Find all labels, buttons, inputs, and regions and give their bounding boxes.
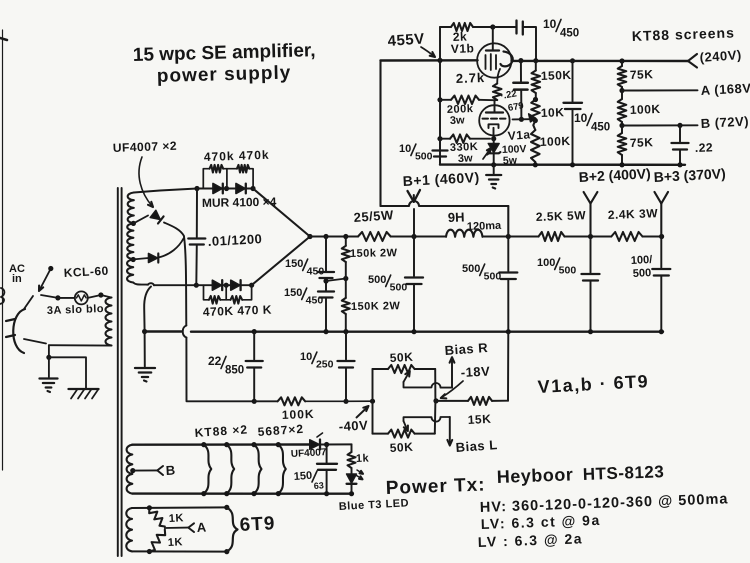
heater pair 3 bottom node bbox=[251, 491, 256, 496]
AC plug prong 2 bbox=[6, 335, 15, 337]
wire neutral corner bbox=[48, 345, 50, 357]
caps chain mid bbox=[323, 278, 328, 291]
node first bleeders bbox=[343, 234, 348, 239]
label 50K top bbox=[389, 350, 413, 365]
label 10/450 top bbox=[543, 17, 579, 39]
svg-text:HV: 360-120-0-120-360 @ 500ma: HV: 360-120-0-120-360 @ 500ma bbox=[480, 491, 729, 516]
wire cap 455V bbox=[507, 237, 509, 272]
svg-text:500: 500 bbox=[484, 271, 502, 283]
capacitor .01/1200 snubber bbox=[188, 239, 205, 245]
svg-text:B+3 (370V): B+3 (370V) bbox=[653, 165, 726, 185]
label 100V 5w bbox=[502, 143, 527, 167]
earth ground bbox=[40, 379, 58, 393]
heater pair 4 bottom node bbox=[276, 491, 281, 496]
diode D5 UF4007 upper bbox=[133, 210, 184, 236]
svg-text:1K: 1K bbox=[168, 536, 184, 549]
svg-text:Blue T3 LED: Blue T3 LED bbox=[339, 497, 410, 513]
label 2.7k bbox=[456, 70, 486, 86]
wire B+1 node drop bbox=[413, 209, 415, 237]
label 25/5W bbox=[353, 207, 394, 225]
label 75K lower bbox=[630, 135, 654, 150]
top row right node bbox=[250, 186, 255, 191]
wire V1b left column bbox=[439, 27, 441, 165]
pot R wiper loop bbox=[404, 382, 453, 388]
resistor 75K lower bbox=[618, 126, 627, 165]
wire diagonal bottom to output bbox=[252, 237, 310, 286]
lower rail node 100k bbox=[533, 162, 538, 167]
node 455V takeoff bbox=[506, 234, 511, 239]
bridge top row left node bbox=[194, 186, 199, 191]
label 3A slo blo bbox=[47, 303, 105, 317]
heater winding 6T9 bbox=[126, 508, 132, 551]
bottom row right node bbox=[249, 283, 254, 288]
earth ground secondary bbox=[135, 368, 155, 382]
gnd rail node 500/500a bbox=[411, 329, 416, 334]
svg-text:LV: 6.3 ct @ 9a: LV: 6.3 ct @ 9a bbox=[481, 512, 601, 532]
label .22 screens bbox=[695, 140, 714, 155]
wire 10/450b bottom bbox=[572, 109, 574, 165]
neutral junction bbox=[46, 355, 51, 360]
svg-text:470k 470k: 470k 470k bbox=[204, 148, 270, 164]
label 10/500 bbox=[399, 143, 433, 163]
bottom row mid node bbox=[222, 283, 231, 288]
label -18V bbox=[460, 363, 490, 380]
V1b cathode bbox=[501, 52, 513, 67]
node divider top bbox=[619, 58, 624, 63]
label Blue T3 LED bbox=[339, 497, 410, 513]
chassis ground bbox=[69, 389, 99, 399]
wire 22/850 top bbox=[253, 332, 255, 360]
wire 10/250 bottom bbox=[345, 368, 347, 402]
capacitor 150/450 upper bbox=[318, 272, 334, 278]
capacitor 100/500 first bbox=[582, 274, 600, 281]
arrow -18V bbox=[441, 381, 463, 398]
svg-text:UF4007 ×2: UF4007 ×2 bbox=[113, 139, 178, 155]
svg-text:120ma: 120ma bbox=[467, 220, 503, 233]
svg-text:500: 500 bbox=[390, 282, 408, 294]
svg-text:B+1 (460V): B+1 (460V) bbox=[402, 169, 480, 189]
title line 2 bbox=[157, 62, 292, 87]
wire fb to wiper bbox=[513, 118, 530, 120]
label arrow UF4007 bbox=[139, 157, 153, 207]
label MUR4100 x4 bbox=[202, 195, 277, 210]
svg-text:6T9: 6T9 bbox=[239, 513, 276, 536]
B+ rail segment 2 bbox=[391, 235, 446, 237]
svg-text:B: B bbox=[165, 463, 175, 478]
svg-text:100K: 100K bbox=[282, 407, 315, 422]
node -40V bbox=[370, 399, 375, 404]
label 150k 2W upper bbox=[350, 247, 398, 260]
gnd rail node 100/500b bbox=[659, 329, 664, 334]
wire bias return lower bbox=[186, 338, 254, 402]
svg-text:25/5W: 25/5W bbox=[353, 207, 394, 225]
wire plug hot to switch bbox=[24, 296, 33, 309]
arrow B tap bbox=[157, 466, 163, 475]
label 75K upper bbox=[630, 67, 654, 82]
svg-text:50K: 50K bbox=[389, 350, 413, 365]
node zener bbox=[491, 136, 496, 141]
pot 10k wiper arrow bbox=[529, 114, 536, 122]
resistor 150k 2W lower bbox=[342, 298, 350, 332]
title line 1 bbox=[133, 40, 316, 66]
label 50K bottom bbox=[389, 440, 413, 455]
B+ rail segment 4 bbox=[565, 235, 612, 237]
ground V1a bbox=[486, 175, 501, 189]
heater winding 6.3V bbox=[127, 445, 133, 494]
heater pair 2 bbox=[227, 445, 235, 494]
wire heater cap bottom bbox=[326, 470, 328, 494]
node B takeoff bbox=[619, 123, 624, 128]
svg-text:1K: 1K bbox=[169, 512, 185, 525]
HV tap node lower bbox=[131, 257, 136, 262]
heater pair 1 bottom node bbox=[201, 491, 206, 496]
svg-text:10: 10 bbox=[399, 143, 411, 155]
pot L wiper loop bbox=[404, 417, 450, 422]
label 150k 2W lower bbox=[351, 300, 401, 313]
6T9 bottom node bbox=[147, 549, 152, 554]
diode D6 UF4007 lower bbox=[132, 239, 183, 263]
svg-text:2.7k: 2.7k bbox=[456, 70, 486, 86]
svg-text:.01/1200: .01/1200 bbox=[207, 231, 262, 249]
label Bias R bbox=[444, 340, 489, 358]
6T9 top rail bbox=[132, 506, 227, 509]
label 150/450 upper bbox=[285, 258, 324, 278]
hop over ground rail bbox=[183, 326, 187, 338]
wire top row bbox=[197, 188, 213, 190]
pot R wiper arrow bbox=[404, 371, 410, 382]
pot box left rail bbox=[372, 369, 374, 434]
heater pair 3 bbox=[254, 445, 262, 494]
stray mark top-left bbox=[0, 38, 7, 40]
svg-text:63: 63 bbox=[313, 480, 324, 491]
wire to chassis ground bbox=[49, 357, 86, 388]
label 100k bbox=[540, 134, 571, 149]
resistor 2.7k bbox=[493, 84, 502, 101]
node B+3 takeoff bbox=[659, 234, 664, 239]
node LED bottom bbox=[349, 491, 354, 496]
svg-text:250: 250 bbox=[316, 359, 334, 371]
svg-text:(240V): (240V) bbox=[699, 47, 742, 65]
svg-text:500: 500 bbox=[462, 263, 480, 275]
V1a plate lead bbox=[494, 100, 496, 112]
rheostat 10k bbox=[531, 100, 540, 120]
wire top row right bbox=[246, 188, 253, 190]
resistor 15K bbox=[436, 397, 508, 405]
label V1a,b 6T9 bbox=[537, 371, 649, 397]
svg-text:2.4K 3W: 2.4K 3W bbox=[608, 206, 659, 222]
svg-text:-18V: -18V bbox=[460, 363, 490, 380]
lower rail node zener bbox=[491, 162, 496, 167]
wire primary bottom to neutral bbox=[49, 344, 112, 346]
wire cap B+2 bottom bbox=[590, 281, 592, 332]
heater pair 4 bbox=[278, 445, 286, 494]
svg-text:10: 10 bbox=[543, 17, 557, 31]
label 2k bbox=[453, 30, 468, 44]
svg-text:15K: 15K bbox=[467, 412, 491, 427]
label (240V) bbox=[699, 47, 742, 65]
top row mid node bbox=[223, 186, 236, 191]
svg-text:75K: 75K bbox=[630, 67, 654, 82]
wire return to earth bbox=[144, 332, 146, 367]
svg-text:MUR 4100 ×4: MUR 4100 ×4 bbox=[202, 195, 277, 210]
diode D1 MUR4100 bbox=[213, 184, 223, 194]
HV secondary top lead bbox=[134, 189, 197, 193]
arrow B+2 bbox=[584, 192, 598, 204]
capacitor 10/250 bbox=[338, 361, 355, 368]
label B (72V) bbox=[700, 113, 749, 131]
wire 455V feed bbox=[381, 61, 509, 237]
svg-text:power supply: power supply bbox=[157, 62, 292, 87]
potentiometer 50K (L bias) bbox=[373, 430, 435, 438]
bottom row left node bbox=[194, 283, 199, 288]
wire cathode node bbox=[496, 99, 498, 101]
label HV spec bbox=[480, 491, 729, 516]
resistor 470k (D2 shunt) bbox=[227, 165, 253, 189]
resistor 2.4k 3W bbox=[611, 232, 642, 241]
zener VR1 100V bbox=[487, 139, 500, 165]
tube V1b envelope bbox=[477, 43, 511, 77]
zener pointer arrow bbox=[483, 148, 491, 159]
label 5687 x2 bbox=[257, 422, 304, 439]
resistor 1k LED bbox=[348, 444, 356, 468]
gnd rail node 22uF bbox=[252, 329, 257, 334]
gnd rail node caps bbox=[323, 329, 328, 334]
label 1K lower bbox=[168, 536, 184, 549]
lower rail node divider bbox=[619, 162, 624, 167]
resistor 75K upper bbox=[618, 61, 627, 91]
wire to earth ground bbox=[48, 357, 50, 377]
svg-text:150K 2W: 150K 2W bbox=[351, 300, 401, 313]
node 455V B+ feed bbox=[437, 58, 442, 63]
wire bottom row bbox=[196, 284, 212, 286]
label 9H bbox=[448, 209, 503, 233]
wire 10/500 top bbox=[439, 139, 441, 149]
resistor 1K humdinger lower bbox=[149, 530, 165, 552]
switch contact node bbox=[48, 266, 53, 271]
svg-text:in: in bbox=[12, 273, 22, 285]
label KCL-60 bbox=[63, 264, 109, 280]
svg-text:A: A bbox=[196, 519, 207, 535]
resistor 1K humdinger upper bbox=[149, 508, 165, 527]
label A (168V) bbox=[700, 80, 750, 98]
capacitor 150/450 lower bbox=[318, 292, 334, 298]
svg-text:KT88 screens: KT88 screens bbox=[632, 24, 736, 44]
wire plug neutral bbox=[24, 339, 46, 344]
heater pair 2 top node bbox=[224, 442, 229, 447]
HV secondary winding middle bbox=[127, 223, 133, 259]
bias node 22uF bbox=[252, 399, 257, 404]
HV bottom lead bbox=[133, 283, 196, 286]
svg-text:150k 2W: 150k 2W bbox=[350, 247, 398, 260]
svg-text:Bias L: Bias L bbox=[455, 437, 498, 455]
wire cap B+3 bottom bbox=[660, 276, 662, 332]
scan edge shadow bbox=[2, 30, 4, 470]
pot L right lead bbox=[434, 401, 437, 434]
wire cap B+2 bbox=[590, 237, 592, 273]
label 1K upper bbox=[169, 512, 185, 525]
label V1b bbox=[451, 41, 475, 56]
label Bias L bbox=[455, 437, 498, 455]
resistor 100K divider bbox=[618, 91, 627, 126]
wire Bias L bbox=[447, 417, 452, 446]
label 500/500 second bbox=[462, 263, 501, 283]
heater pair 1 bbox=[204, 445, 212, 494]
lower rail node .22 bbox=[677, 162, 682, 167]
wire switch to fuse bbox=[41, 295, 58, 298]
heater pair 4 top node bbox=[276, 442, 281, 447]
fuse F1 3A slo-blo bbox=[75, 291, 88, 304]
label A tap bbox=[196, 519, 207, 535]
label Power Tx: bbox=[385, 475, 485, 499]
choke 9H 120ma bbox=[446, 230, 483, 237]
svg-text:LV : 6.3 @ 2a: LV : 6.3 @ 2a bbox=[478, 530, 584, 550]
V1a plate bbox=[486, 111, 503, 113]
heater bottom rail bbox=[132, 492, 352, 495]
svg-text:500: 500 bbox=[415, 151, 433, 163]
winding tap B bbox=[130, 468, 157, 473]
label V1a bbox=[507, 127, 531, 143]
wire bias return vertical bbox=[184, 237, 186, 326]
svg-text:100/: 100/ bbox=[631, 254, 653, 267]
svg-text:9H: 9H bbox=[448, 209, 465, 225]
capacitor 22/850 bbox=[246, 361, 263, 368]
svg-text:850: 850 bbox=[225, 364, 244, 376]
node .22 tap bbox=[677, 123, 682, 128]
HV secondary winding upper bbox=[128, 193, 134, 224]
label 100/500 second bbox=[631, 254, 653, 280]
svg-text:HTS-8123: HTS-8123 bbox=[582, 462, 664, 484]
svg-text:·.22: ·.22 bbox=[500, 88, 518, 102]
arrow 455V bbox=[421, 47, 435, 57]
heater top rail bbox=[132, 443, 309, 446]
arrow B+1 bbox=[408, 190, 421, 202]
V1b grid dashes bbox=[486, 54, 497, 70]
label 200k bbox=[447, 103, 474, 127]
label KT88 x2 bbox=[194, 422, 248, 440]
resistor 150k 2W upper bbox=[342, 237, 350, 298]
svg-text:1k: 1k bbox=[356, 453, 370, 465]
label 10/450 mid bbox=[574, 111, 610, 133]
svg-text:2.5K 5W: 2.5K 5W bbox=[536, 208, 587, 224]
label KT88 screens bbox=[632, 24, 736, 44]
node B+2 takeoff bbox=[588, 234, 593, 239]
resistor 2k bbox=[440, 23, 493, 31]
node 10k bottom bbox=[533, 118, 538, 123]
return junction bbox=[142, 329, 147, 334]
wire heater dc bbox=[320, 443, 352, 445]
switch lever bbox=[39, 269, 51, 292]
wire fuse to primary bbox=[88, 295, 112, 298]
wire B+2 drop bbox=[589, 204, 591, 237]
svg-text:470K 470 K: 470K 470 K bbox=[203, 303, 272, 319]
6T9 rail end bottom node bbox=[224, 549, 229, 554]
V1b plate bbox=[486, 49, 499, 51]
LED D8 blue bbox=[347, 468, 357, 494]
label B+1 (460V) bbox=[402, 169, 480, 189]
capacitor 10/450 mid bbox=[564, 103, 583, 109]
V1a stage lower rail bbox=[440, 163, 685, 166]
gnd rail node 100/500a bbox=[588, 329, 593, 334]
label Heyboor HTS-8123 bbox=[496, 462, 664, 487]
6T9 bottom rail bbox=[132, 550, 227, 552]
wire 22/850 bottom bbox=[253, 368, 255, 402]
label 100K divider bbox=[630, 102, 661, 117]
svg-text:100K: 100K bbox=[540, 134, 571, 149]
wire heater cap bbox=[326, 445, 328, 463]
resistor 200k bbox=[440, 96, 494, 104]
heater pair 2 bottom node bbox=[224, 491, 229, 496]
6T9 rail end top node bbox=[224, 505, 229, 510]
label 100K bbox=[282, 407, 315, 422]
svg-text:V1a,b · 6T9: V1a,b · 6T9 bbox=[537, 371, 649, 397]
resistor 470k (D3 shunt) bbox=[204, 285, 227, 303]
svg-text:500: 500 bbox=[559, 265, 577, 277]
svg-text:10K: 10K bbox=[541, 105, 565, 120]
svg-text:KCL-60: KCL-60 bbox=[63, 264, 109, 280]
label UF4007 heater bbox=[291, 447, 328, 460]
wire 10/500 bottom bbox=[439, 157, 441, 165]
resistor 100K bias bbox=[254, 397, 372, 405]
svg-text:3w: 3w bbox=[450, 114, 466, 127]
wire humdinger center bbox=[165, 527, 188, 529]
label UF4007 x2 bbox=[113, 139, 178, 155]
svg-text:450: 450 bbox=[306, 295, 324, 307]
AC plug bbox=[13, 309, 25, 353]
wire .22 cap bbox=[679, 125, 681, 141]
resistor 470k (D4 shunt) bbox=[226, 285, 251, 303]
label 470k 470k top bbox=[204, 148, 270, 164]
rectifier output node bbox=[307, 234, 312, 239]
label 100/500 first bbox=[537, 257, 576, 277]
svg-text:Bias R: Bias R bbox=[444, 340, 489, 358]
svg-text:Heyboor: Heyboor bbox=[496, 464, 573, 487]
pot R right lead bbox=[434, 369, 436, 401]
resistor 2.5k 5W bbox=[539, 232, 565, 241]
node 150k top bbox=[533, 58, 538, 63]
wire Bias R bbox=[450, 357, 455, 387]
wire to B bbox=[622, 124, 698, 126]
label 10/250 bbox=[300, 351, 334, 371]
svg-text:5687×2: 5687×2 bbox=[257, 422, 304, 439]
label AC in bbox=[9, 263, 25, 285]
HV secondary winding lower bbox=[127, 260, 133, 283]
label -40V bbox=[338, 417, 368, 434]
B+ rail segment 3 bbox=[483, 235, 539, 237]
V1a cathode bbox=[489, 124, 499, 135]
svg-text:A (168V): A (168V) bbox=[700, 80, 750, 98]
svg-text:450: 450 bbox=[560, 27, 579, 39]
svg-text:100: 100 bbox=[537, 257, 555, 269]
svg-text:150: 150 bbox=[293, 470, 312, 483]
label 150/63 bbox=[293, 470, 324, 491]
rail 455V left bbox=[381, 59, 478, 62]
bias center node bbox=[433, 398, 438, 403]
svg-text:KT88 ×2: KT88 ×2 bbox=[194, 422, 248, 440]
svg-text:UF4007: UF4007 bbox=[291, 447, 328, 460]
node 200k bbox=[437, 97, 442, 102]
gnd rail node bleeders bbox=[343, 329, 348, 334]
capacitor .22 679 bbox=[513, 83, 527, 90]
tube V1a envelope bbox=[479, 105, 509, 135]
wire cap B+1 bottom bbox=[413, 284, 415, 332]
wire cap B+3 bbox=[660, 237, 662, 268]
capacitor 150/63 bbox=[317, 464, 337, 470]
pot L wiper arrow bbox=[404, 421, 408, 431]
label B+3 (370V) bbox=[653, 165, 726, 185]
bias node 10uF bbox=[343, 399, 348, 404]
diode D4 MUR4100 bbox=[231, 280, 241, 290]
resistor 100k bbox=[531, 121, 540, 165]
